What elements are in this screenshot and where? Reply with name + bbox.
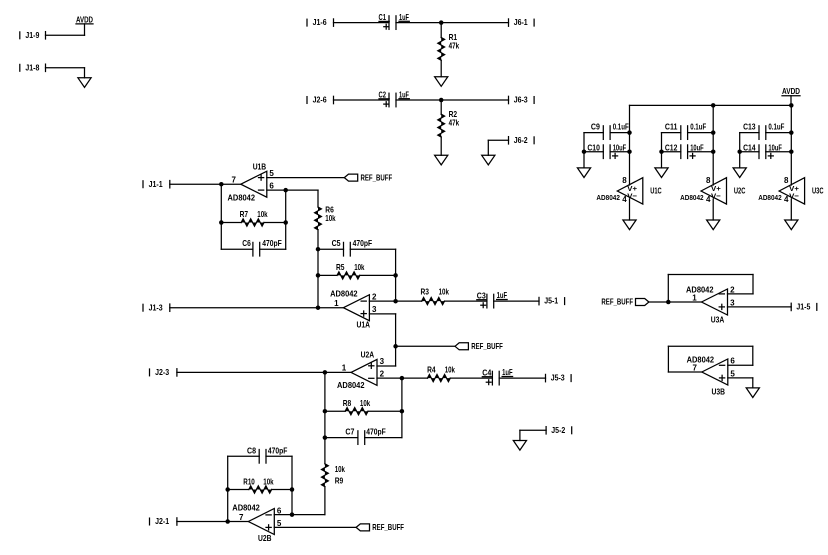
svg-text:C10: C10 xyxy=(587,144,600,153)
svg-text:J2-3: J2-3 xyxy=(155,368,169,377)
svg-text:V−: V− xyxy=(789,191,799,200)
svg-text:C14: C14 xyxy=(743,144,756,153)
wire R2 to ground xyxy=(440,137,442,155)
label R3 value xyxy=(421,288,450,297)
junction R8 left xyxy=(323,409,328,414)
power AVDD (top left) xyxy=(76,15,93,35)
svg-text:2: 2 xyxy=(372,293,377,302)
connector J1-1 xyxy=(143,180,170,189)
svg-text:U1C: U1C xyxy=(650,187,662,196)
svg-text:2: 2 xyxy=(730,285,735,294)
wire R8 row right xyxy=(368,410,402,412)
svg-text:U2B: U2B xyxy=(258,534,272,543)
wire U3B output xyxy=(668,371,701,373)
resistor R10 10k xyxy=(249,486,272,493)
op-amp U2B AD8042 xyxy=(232,503,282,543)
wire J6-2 to ground xyxy=(488,140,508,155)
junction R5 left xyxy=(316,273,321,278)
ground (C10) xyxy=(577,168,590,178)
svg-text:J6-3: J6-3 xyxy=(514,96,528,105)
svg-text:470pF: 470pF xyxy=(262,239,282,248)
junction rail/AVDD stub xyxy=(789,103,794,108)
wire C1 to node xyxy=(396,22,441,24)
wire R9 down to U2B pin6 row xyxy=(292,487,325,515)
svg-text:7: 7 xyxy=(693,363,698,372)
resistor R3 10k xyxy=(422,298,445,305)
junction right rail C11 xyxy=(711,130,716,135)
resistor R1 47k xyxy=(438,38,445,61)
wire U2B pin5 to REF_BUFF xyxy=(274,526,356,528)
svg-text:10k: 10k xyxy=(354,263,365,272)
label R5 value xyxy=(336,263,365,272)
junction node C2/R2/J6-3 xyxy=(439,98,444,103)
svg-text:C7: C7 xyxy=(345,428,354,437)
ground (J6-2) xyxy=(482,155,495,165)
junction right rail C14 xyxy=(789,149,794,154)
op-amp U3B AD8042 xyxy=(687,355,736,396)
svg-text:0.1uF: 0.1uF xyxy=(768,122,784,131)
power AVDD (right) xyxy=(782,87,800,105)
wire U2A pin2 node down to C7 corner xyxy=(401,378,403,438)
wire U1B pin6 to R6 xyxy=(317,190,319,207)
resistor R7 10k xyxy=(241,219,264,226)
svg-text:1: 1 xyxy=(692,293,697,302)
junction node C1/R1/J6-1 xyxy=(439,20,444,25)
label R2 value xyxy=(449,110,460,128)
svg-text:J5-1: J5-1 xyxy=(544,297,558,306)
ground (C14) xyxy=(733,168,746,178)
junction right rail C10 xyxy=(627,149,632,154)
wire feedback right vertical (U1B) xyxy=(285,190,287,249)
svg-text:R9: R9 xyxy=(335,477,344,486)
label R4 value xyxy=(427,365,455,374)
connector J1-3 xyxy=(143,303,170,312)
wire R4 to C4 xyxy=(450,377,492,379)
svg-text:470pF: 470pF xyxy=(268,446,288,455)
svg-text:10k: 10k xyxy=(325,214,336,223)
ground (U3B) xyxy=(746,388,759,398)
svg-text:J1-6: J1-6 xyxy=(313,18,327,27)
ground (U2C) xyxy=(707,220,720,230)
wire C7 node down to R9 xyxy=(324,438,326,464)
connector J1-9 xyxy=(20,31,46,40)
wire U1A pin2 row xyxy=(369,300,421,302)
svg-text:1: 1 xyxy=(334,299,339,308)
junction left rail C10 xyxy=(582,149,587,154)
wire left rail (C9/C10) xyxy=(583,133,585,168)
wire node down to U2A pin3 xyxy=(377,346,396,366)
label R10 value xyxy=(243,478,274,487)
svg-text:J1-5: J1-5 xyxy=(796,303,810,312)
junction R10 right xyxy=(290,487,295,492)
ground (J5-2) xyxy=(513,441,526,451)
wire U3B feedback loop xyxy=(668,346,752,372)
wire R8 row left xyxy=(325,410,345,412)
svg-text:AVDD: AVDD xyxy=(782,87,800,96)
svg-text:1uF: 1uF xyxy=(399,90,409,99)
wire J1-1 to U1B output xyxy=(170,183,222,185)
svg-text:1: 1 xyxy=(342,364,347,373)
wire AVDD power rail xyxy=(630,104,792,106)
wire node to J6-3 xyxy=(441,99,508,101)
svg-text:J5-2: J5-2 xyxy=(551,426,565,435)
svg-text:R10: R10 xyxy=(243,478,255,487)
ground (R1) xyxy=(435,77,448,87)
net flag REF_BUFF (U2A pin3) xyxy=(455,342,503,351)
svg-text:REF_BUFF: REF_BUFF xyxy=(361,173,393,182)
junction left rail C12 xyxy=(659,149,664,154)
op-amp U2C AD8042 power pins xyxy=(680,176,745,204)
ground (R2) xyxy=(435,155,448,165)
svg-text:5: 5 xyxy=(730,369,735,378)
svg-text:R5: R5 xyxy=(336,263,345,272)
svg-text:U3A: U3A xyxy=(711,316,725,325)
capacitor C3 1uF xyxy=(477,291,507,308)
junction R7 left xyxy=(219,220,224,225)
wire node to REF_BUFF flag xyxy=(396,345,455,347)
wire J1-8 to ground xyxy=(46,68,85,78)
capacitor C8 470pF xyxy=(228,446,292,463)
wire R5 left vertical xyxy=(317,249,319,275)
svg-text:J6-2: J6-2 xyxy=(514,136,528,145)
wire U1B pin5 to REF_BUFF xyxy=(267,177,345,179)
connector J2-3 xyxy=(150,368,177,377)
svg-text:AD8042: AD8042 xyxy=(337,381,365,390)
wire node to U1B pin7 xyxy=(221,183,241,185)
wire J5-2 to ground xyxy=(520,430,546,440)
svg-text:10k: 10k xyxy=(263,478,274,487)
junction C5 left node xyxy=(316,247,321,252)
wire C2 to node xyxy=(396,99,441,101)
svg-text:AD8042: AD8042 xyxy=(596,193,620,202)
svg-text:J1-9: J1-9 xyxy=(25,31,39,40)
wire R7 row left xyxy=(221,222,241,224)
svg-text:AD8042: AD8042 xyxy=(687,355,715,364)
wire U2B feedback right vertical xyxy=(291,456,293,514)
svg-text:6: 6 xyxy=(269,182,274,191)
junction right rail C9 xyxy=(627,130,632,135)
svg-text:1uF: 1uF xyxy=(502,368,512,377)
wire U1C pin4 to ground xyxy=(629,199,631,220)
label R1 value xyxy=(449,33,460,51)
junction U2B pin6 node xyxy=(290,512,295,517)
label R7 value xyxy=(240,210,268,219)
svg-text:3: 3 xyxy=(372,305,377,314)
svg-text:REF_BUFF: REF_BUFF xyxy=(601,298,633,307)
junction right rail C13 xyxy=(789,130,794,135)
svg-text:7: 7 xyxy=(239,513,244,522)
svg-text:J1-1: J1-1 xyxy=(149,180,163,189)
svg-text:V−: V− xyxy=(627,191,637,200)
wire U2B pin6 row xyxy=(274,514,292,516)
svg-text:AD8042: AD8042 xyxy=(228,194,256,203)
svg-text:AD8042: AD8042 xyxy=(232,503,260,512)
svg-text:1uF: 1uF xyxy=(399,13,409,22)
op-amp U1C AD8042 power pins xyxy=(596,176,661,204)
connector J1-6 xyxy=(307,18,334,27)
junction U1A output node xyxy=(316,305,321,310)
svg-text:2: 2 xyxy=(380,370,385,379)
svg-text:1uF: 1uF xyxy=(497,291,508,300)
wire U1A pin3 xyxy=(369,313,395,315)
wire R8 left node down to C7 xyxy=(324,411,326,437)
resistor R2 47k xyxy=(438,114,445,137)
svg-text:3: 3 xyxy=(380,357,385,366)
svg-text:REF_BUFF: REF_BUFF xyxy=(471,342,503,351)
svg-text:J1-8: J1-8 xyxy=(25,63,39,72)
svg-text:C12: C12 xyxy=(665,144,678,153)
wire R6 node down to U1A output row xyxy=(317,275,319,307)
wire R10 row right xyxy=(272,489,292,491)
net flag REF_BUFF (U2B pin5) xyxy=(356,523,404,532)
capacitor C1 1uF xyxy=(379,13,410,29)
connector J6-1 xyxy=(509,18,535,27)
capacitor C11 0.1uF xyxy=(662,122,714,139)
wire R10 row left xyxy=(228,489,249,491)
svg-text:6: 6 xyxy=(730,357,735,366)
wire J1-9 to AVDD xyxy=(46,34,85,36)
svg-text:U1A: U1A xyxy=(357,321,371,330)
resistor R9 10k xyxy=(322,464,329,487)
svg-text:U2C: U2C xyxy=(734,187,746,196)
wire left rail (C13/C14) xyxy=(739,133,741,168)
junction U1B output node xyxy=(219,182,224,187)
resistor R6 10k xyxy=(315,207,322,230)
resistor R5 10k xyxy=(337,272,360,279)
wire R7 row right xyxy=(264,222,286,224)
junction rail/U2C branch xyxy=(711,103,716,108)
connector J6-2 xyxy=(509,136,535,145)
wire node to R2 xyxy=(440,100,442,114)
svg-text:470pF: 470pF xyxy=(353,239,373,248)
wire node to J6-1 xyxy=(441,22,508,24)
wire R1 to ground xyxy=(440,60,442,76)
op-amp U1A AD8042 xyxy=(330,289,377,329)
resistor R8 10k xyxy=(345,408,368,415)
label R8 value xyxy=(343,399,371,408)
svg-text:U1B: U1B xyxy=(253,162,267,171)
wire C4 to J5-3 xyxy=(499,377,545,379)
wire U2B feedback left vertical xyxy=(227,456,229,521)
svg-text:R7: R7 xyxy=(240,210,249,219)
wire right rail (U1C) xyxy=(629,105,631,185)
wire R3 to C3 xyxy=(445,300,487,302)
connector J1-5 xyxy=(791,303,817,312)
wire U1B pin6 xyxy=(267,189,318,191)
wire C5 right corner down xyxy=(395,249,397,275)
capacitor C4 1uF xyxy=(482,368,512,385)
ground (J1-8) xyxy=(78,78,91,88)
ground (U1C) xyxy=(623,220,636,230)
svg-text:10k: 10k xyxy=(445,365,456,374)
wire node to U2A pin1 xyxy=(325,371,351,373)
junction C7 left xyxy=(323,435,328,440)
wire left rail (C11/C12) xyxy=(661,133,663,168)
svg-text:AVDD: AVDD xyxy=(76,15,93,24)
svg-text:470pF: 470pF xyxy=(366,428,386,437)
net flag REF_BUFF (U1B pin5) xyxy=(344,173,392,182)
wire R6 to C5 node xyxy=(317,230,319,249)
wire J2-3 to U2A output xyxy=(177,371,325,373)
svg-text:5: 5 xyxy=(277,519,282,528)
svg-text:0.1uF: 0.1uF xyxy=(613,122,629,131)
svg-text:3: 3 xyxy=(730,298,735,307)
svg-text:AD8042: AD8042 xyxy=(758,193,782,202)
svg-text:C11: C11 xyxy=(665,122,678,131)
net flag REF_BUFF (U3A input) xyxy=(601,298,649,307)
connector J5-1 xyxy=(539,297,565,306)
connector J2-1 xyxy=(150,517,177,526)
svg-text:0.1uF: 0.1uF xyxy=(690,122,706,131)
junction REF_BUFF node xyxy=(393,344,398,349)
junction R5 right xyxy=(393,273,398,278)
wire U3A pin3 to J1-5 xyxy=(728,306,792,308)
svg-text:J2-1: J2-1 xyxy=(155,517,169,526)
junction U2B output node xyxy=(225,519,230,524)
capacitor C14 10uF xyxy=(740,144,792,159)
svg-text:J1-3: J1-3 xyxy=(149,303,163,312)
wire J2-6 to C2 xyxy=(334,99,390,101)
svg-text:J6-1: J6-1 xyxy=(514,18,528,27)
svg-text:5: 5 xyxy=(269,169,274,178)
capacitor C7 470pF xyxy=(325,428,402,445)
junction R7 right xyxy=(283,220,288,225)
svg-text:7: 7 xyxy=(232,176,237,185)
wire U2A output node down (feedback left vertical) xyxy=(324,372,326,411)
svg-text:47k: 47k xyxy=(449,42,460,51)
ground (U3C) xyxy=(785,220,798,230)
wire J1-3 to U1A output xyxy=(170,307,318,309)
svg-text:R8: R8 xyxy=(343,399,352,408)
svg-text:C6: C6 xyxy=(242,239,251,248)
junction pin6/feedback xyxy=(283,188,288,193)
wire J1-6 to C1 xyxy=(334,22,390,24)
junction right rail C12 xyxy=(711,149,716,154)
wire REF_BUFF flag to U3A xyxy=(649,301,702,303)
svg-text:6: 6 xyxy=(277,506,282,515)
wire U1A pin3 down to REF_BUFF node xyxy=(395,314,397,346)
capacitor C6 470pF xyxy=(221,239,285,256)
junction U3A feedback node xyxy=(666,300,671,305)
op-amp U1B AD8042 xyxy=(228,162,275,202)
capacitor C5 470pF xyxy=(318,239,396,256)
svg-text:AD8042: AD8042 xyxy=(330,289,358,298)
op-amp U3C AD8042 power pins xyxy=(758,176,823,204)
wire feedback left vertical (U1B) xyxy=(220,184,222,249)
ground (C12) xyxy=(655,168,668,178)
capacitor C12 10uF xyxy=(662,144,714,159)
wire U3B pin5 to ground xyxy=(728,378,753,388)
junction left rail C14 xyxy=(737,149,742,154)
capacitor C10 10uF xyxy=(584,144,630,159)
svg-text:R3: R3 xyxy=(421,288,430,297)
svg-text:V−: V− xyxy=(711,191,721,200)
svg-text:10k: 10k xyxy=(360,399,371,408)
capacitor C2 1uF xyxy=(379,90,410,106)
resistor R4 10k xyxy=(428,375,451,382)
label R6 value xyxy=(325,206,336,224)
svg-text:U2A: U2A xyxy=(361,351,375,360)
svg-text:J2-6: J2-6 xyxy=(313,96,327,105)
wire C3 to J5-1 xyxy=(494,300,539,302)
svg-text:R4: R4 xyxy=(427,365,436,374)
wire U2A pin2 row xyxy=(377,377,428,379)
svg-text:47k: 47k xyxy=(449,119,460,128)
junction U2A pin2 node xyxy=(400,376,405,381)
connector J5-2 xyxy=(546,426,572,435)
junction R8 right xyxy=(400,409,405,414)
svg-text:C13: C13 xyxy=(743,122,756,131)
svg-text:U3C: U3C xyxy=(812,187,824,196)
junction U2A output node xyxy=(323,370,328,375)
wire node to U1A pin1 xyxy=(318,307,343,309)
wire right rail (U2C) xyxy=(712,105,714,185)
capacitor C13 0.1uF xyxy=(740,122,792,139)
wire U2C pin4 to ground xyxy=(712,199,714,220)
wire node to U2B pin7 xyxy=(228,521,249,523)
wire right rail (U3C) xyxy=(790,105,792,185)
svg-text:U3B: U3B xyxy=(712,388,726,397)
junction R10 left xyxy=(225,487,230,492)
svg-text:10k: 10k xyxy=(257,210,268,219)
wire R5 row left xyxy=(318,274,337,276)
wire R5 row right xyxy=(360,274,396,276)
wire J2-1 to U2B output xyxy=(177,521,228,523)
svg-text:AD8042: AD8042 xyxy=(680,193,704,202)
svg-text:AD8042: AD8042 xyxy=(686,285,714,294)
wire U3C pin4 to ground xyxy=(790,199,792,220)
svg-text:C8: C8 xyxy=(247,446,256,455)
svg-text:REF_BUFF: REF_BUFF xyxy=(372,523,404,532)
connector J5-3 xyxy=(546,374,572,383)
svg-text:10k: 10k xyxy=(439,288,450,297)
label R9 value xyxy=(335,465,346,485)
svg-text:J5-3: J5-3 xyxy=(551,374,565,383)
connector J6-3 xyxy=(509,96,535,105)
op-amp U2A AD8042 xyxy=(337,351,385,390)
wire node to R1 xyxy=(440,23,442,38)
junction U1A pin2 node xyxy=(393,299,398,304)
svg-text:C5: C5 xyxy=(332,239,341,248)
connector J2-6 xyxy=(307,96,334,105)
svg-text:C9: C9 xyxy=(591,122,600,131)
wire U3A feedback loop xyxy=(668,275,753,303)
wire feedback vertical to U1A pin2 xyxy=(395,275,397,301)
capacitor C9 0.1uF xyxy=(584,122,630,139)
op-amp U3A AD8042 xyxy=(686,285,735,324)
connector J1-8 xyxy=(20,63,46,72)
svg-text:10k: 10k xyxy=(335,465,346,474)
